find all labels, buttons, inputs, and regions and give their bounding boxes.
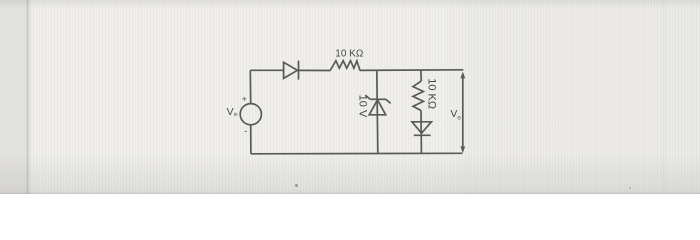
svg-text:+: + <box>242 93 247 103</box>
resistor R1 <box>330 61 360 71</box>
source Vin <box>240 104 261 125</box>
wire top middle <box>299 69 331 71</box>
svg-text:10 V: 10 V <box>357 95 369 118</box>
svg-text:Vo: Vo <box>450 108 461 122</box>
wire left lower <box>250 125 252 154</box>
wire top right <box>360 69 464 72</box>
arrow Vo <box>460 72 465 153</box>
wire top left <box>250 69 283 71</box>
wire bottom <box>251 152 463 155</box>
svg-text:Vin: Vin <box>227 106 238 118</box>
resistor R2 <box>413 81 423 111</box>
svg-text:10 KΩ: 10 KΩ <box>426 78 438 109</box>
diode D2 <box>412 122 431 136</box>
wire right branch upper <box>420 70 423 81</box>
diode D1 <box>284 61 299 80</box>
svg-text:-: - <box>244 126 247 136</box>
wire left upper <box>249 70 251 103</box>
wire right branch lower <box>420 111 422 154</box>
zener Z1 <box>365 95 390 115</box>
svg-text:10 KΩ: 10 KΩ <box>335 49 364 60</box>
wire middle branch <box>377 70 378 153</box>
